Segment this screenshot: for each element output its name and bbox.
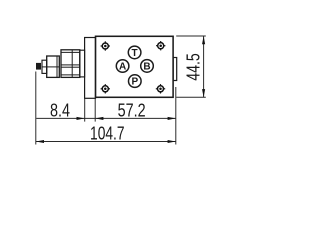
solenoid block vertical split line [71,50,73,78]
arrow 57.2 left [95,117,103,120]
mounting hole bottom-right [156,84,165,93]
mounting end plate strip [85,38,96,99]
nut inner vertical line [56,56,58,77]
svg-text:44.5: 44.5 [183,53,203,81]
valve body [96,36,174,97]
dimension line 44.5 [203,36,205,97]
extension line plate right [94,98,96,121]
port T circle [128,46,141,59]
svg-text:T: T [132,48,138,59]
side tab on body right edge [173,58,177,81]
mounting hole top-left [101,41,166,94]
arrow 8.4 left [77,117,85,120]
dimension line 104.7 [36,141,176,143]
extension line 44.5 top [176,35,206,37]
arrow 104.7 left [36,140,44,143]
solenoid neck collar [80,50,85,77]
arrow 44.5 bottom [202,89,205,97]
svg-text:B: B [143,62,150,73]
svg-text:A: A [119,62,126,73]
dimension line 8.4 / 57.2 [36,117,176,119]
solenoid block chamfer bottom line [61,74,80,76]
mounting hole top-right [156,41,165,50]
mounting hole bottom-left [101,84,110,93]
extension line right (overall) [175,87,177,145]
solenoid block middle band [61,65,80,67]
solenoid block [61,50,80,78]
svg-text:104.7: 104.7 [90,123,125,143]
port A circle [116,60,129,73]
override knurled tip [36,63,41,70]
arrow 57.2 right [168,117,176,120]
svg-text:57.2: 57.2 [118,100,146,120]
port B circle [141,60,154,73]
manual override nut [47,56,60,77]
arrow 44.5 top [202,36,205,44]
extension line plate left [84,98,86,121]
svg-text:P: P [131,77,138,88]
arrow 104.7 right [168,140,176,143]
svg-text:8.4: 8.4 [50,101,70,121]
extension line left (overall) [35,72,37,145]
solenoid block chamfer top line [61,51,80,53]
nut middle line [47,66,60,68]
extension line 44.5 bottom [176,96,206,98]
port P circle [129,75,142,88]
collar middle line [42,66,47,68]
override collar [42,60,47,73]
